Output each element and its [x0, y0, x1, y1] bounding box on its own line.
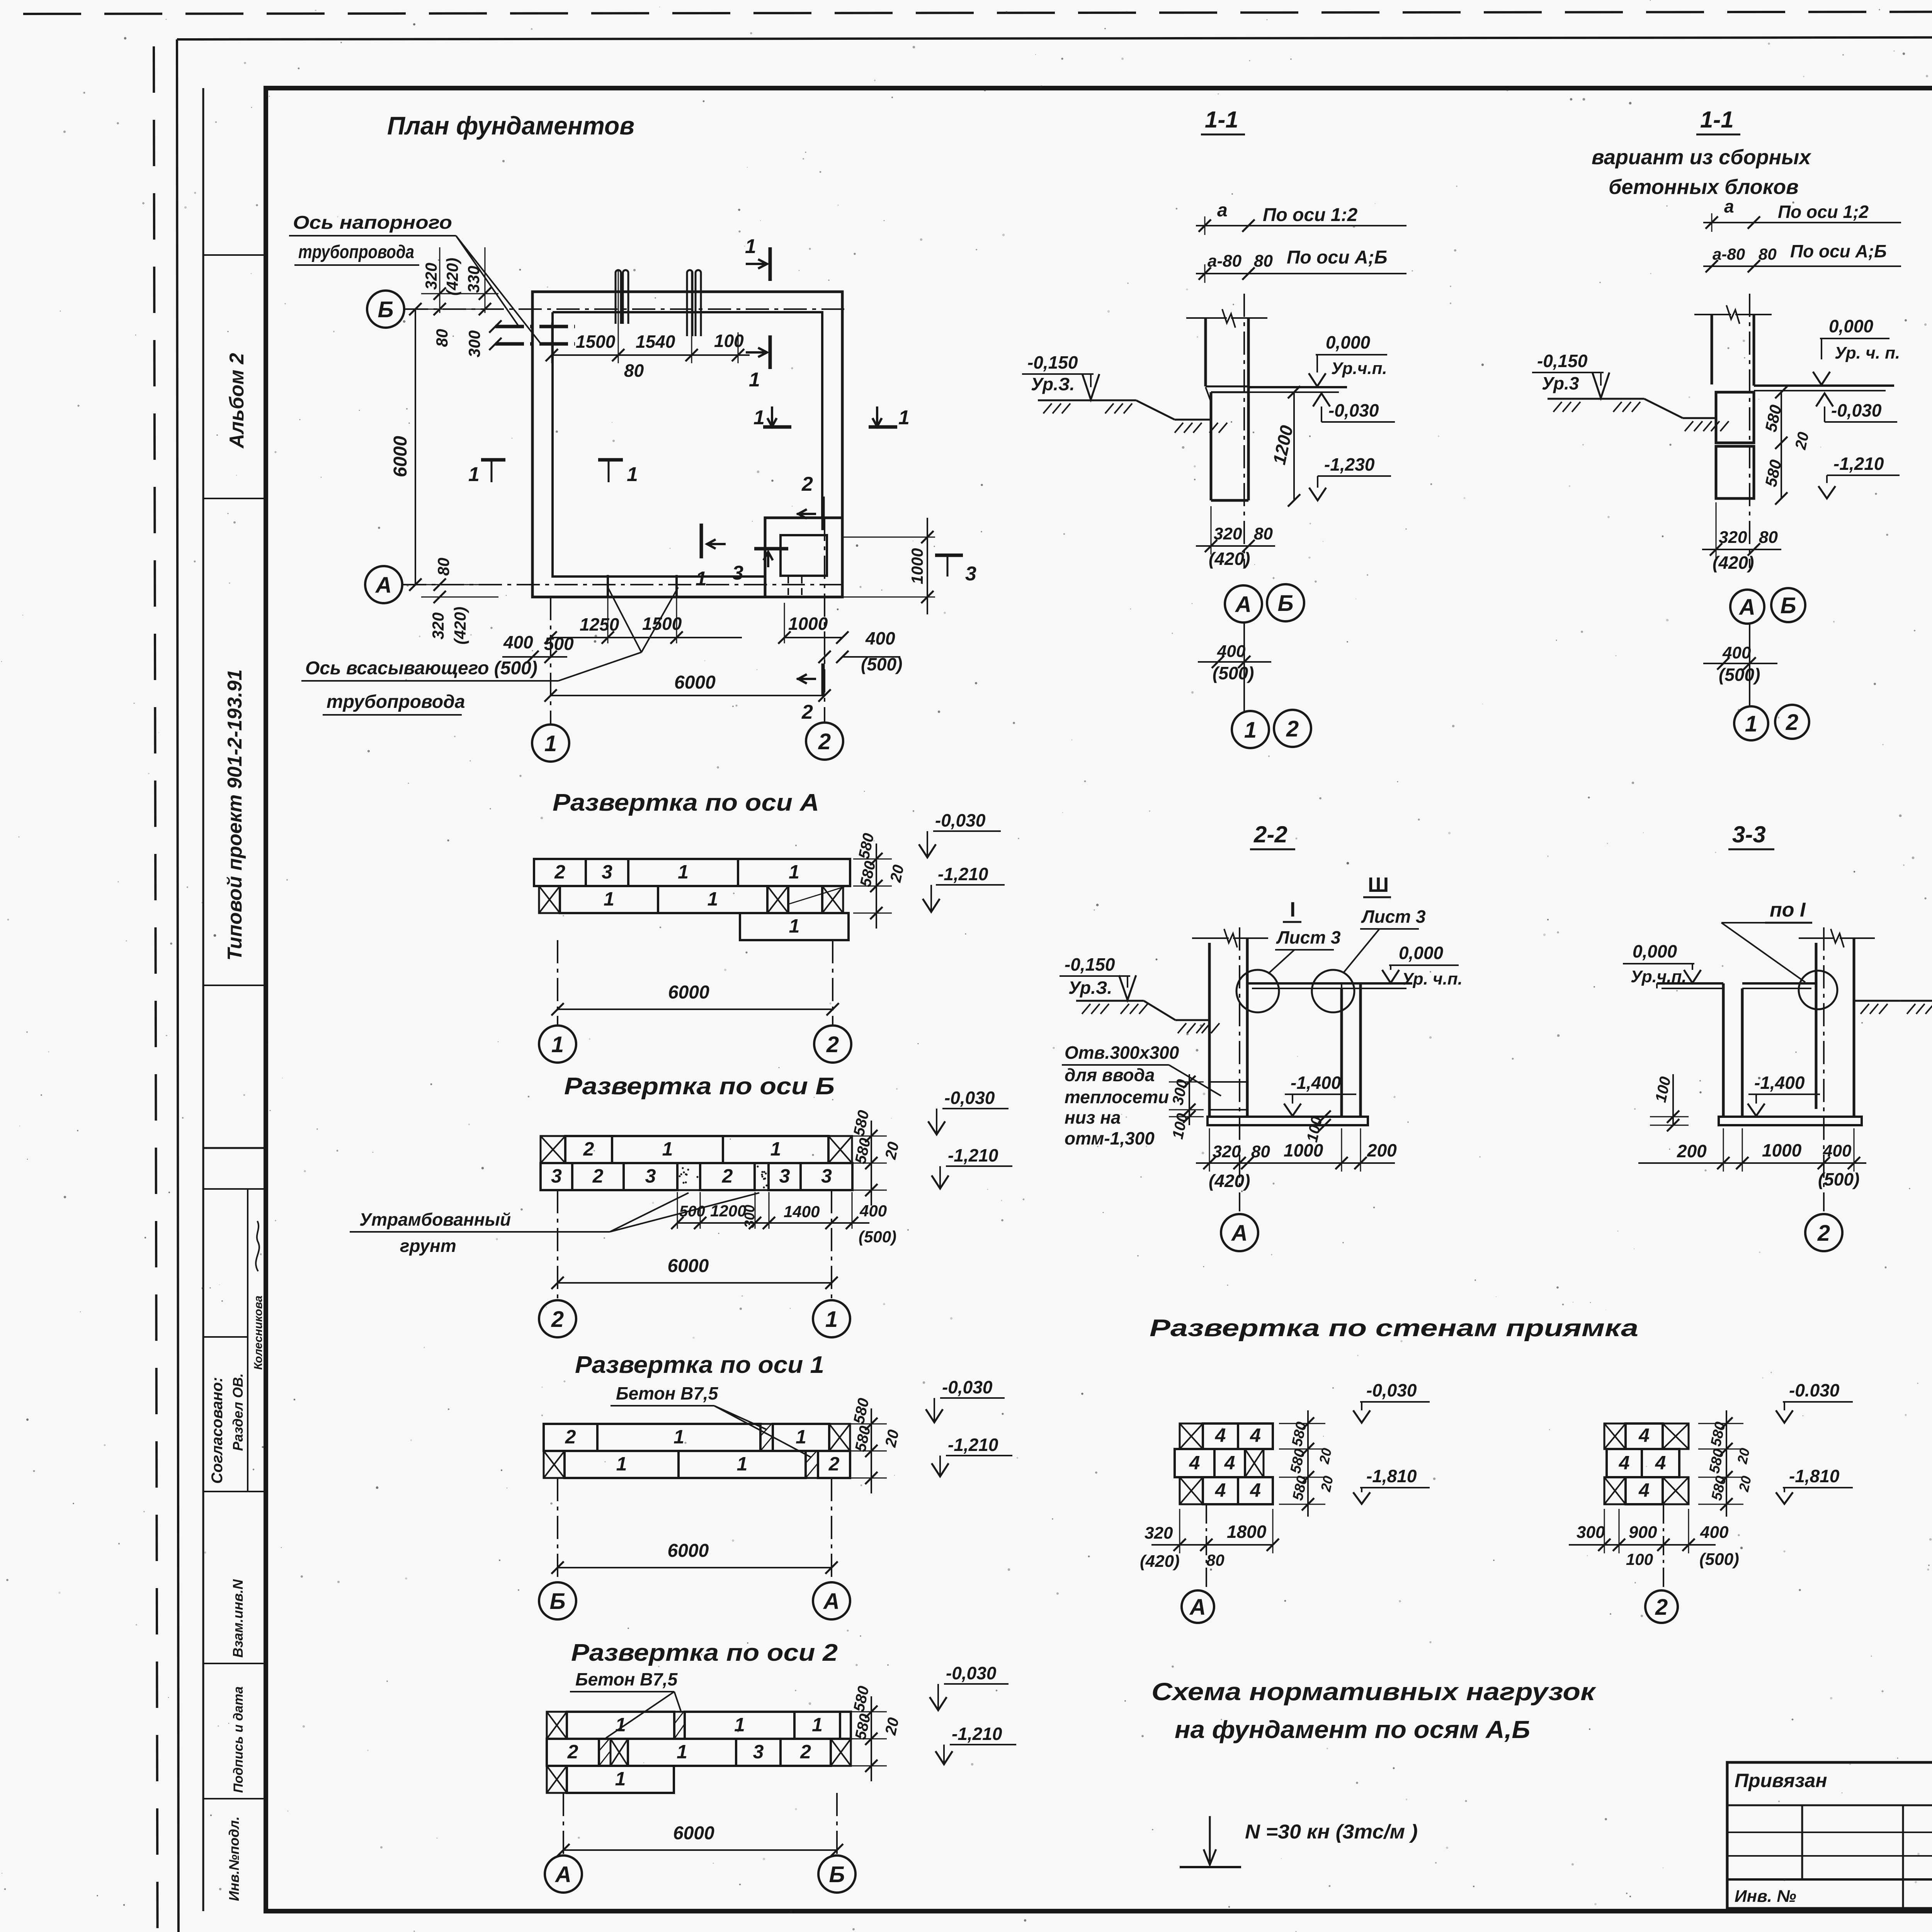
svg-text:(500): (500) — [1719, 665, 1760, 685]
svg-text:Б: Б — [549, 1589, 565, 1614]
1-1v block dims 580/20/580 — [1762, 386, 1812, 505]
svg-text:1000: 1000 — [1284, 1140, 1323, 1160]
1-1 dim 400 (500) — [1198, 622, 1271, 711]
blocks razvertka A row2 — [539, 886, 844, 913]
tamped soil label — [350, 1193, 759, 1256]
3-3 ground right — [1854, 1001, 1932, 1014]
svg-text:План фундаментов: План фундаментов — [387, 111, 634, 140]
load scheme title — [1151, 1678, 1597, 1743]
1-1v elev 0,000 — [1813, 316, 1900, 385]
svg-text:-0,150: -0,150 — [1537, 351, 1588, 371]
svg-text:(500): (500) — [859, 1228, 896, 1246]
svg-text:низ на: низ на — [1065, 1107, 1121, 1128]
svg-text:Инв. №: Инв. № — [1735, 1887, 1796, 1906]
1-1v elev -1,210 — [1818, 454, 1900, 498]
1-1v elev -0,150 — [1532, 351, 1609, 398]
svg-text:Взам.инв.N: Взам.инв.N — [230, 1579, 246, 1658]
2-2 detail circle I — [1236, 898, 1341, 1012]
svg-text:а-80: а-80 — [1207, 252, 1242, 270]
section mark 3 right outside — [935, 555, 976, 585]
3-3 axis — [1823, 927, 1825, 1211]
svg-text:4: 4 — [1215, 1479, 1226, 1501]
blocks razvertka A row3 — [740, 913, 849, 940]
svg-text:300: 300 — [742, 1205, 757, 1228]
svg-text:1: 1 — [737, 1453, 748, 1475]
2-2 hole 300x300 — [1209, 1082, 1247, 1110]
svg-text:Подпись и дата: Подпись и дата — [231, 1686, 246, 1793]
razvertka B bottom dims 500/1200/300/1400/400 — [671, 1192, 896, 1246]
svg-text:20: 20 — [1736, 1475, 1755, 1493]
svg-text:-1,210: -1,210 — [948, 1435, 998, 1455]
svg-text:1: 1 — [789, 915, 800, 937]
3-3 elev 0,000 left — [1623, 941, 1701, 986]
section mark 1 top right — [745, 235, 770, 281]
svg-text:400: 400 — [865, 628, 895, 648]
svg-text:20: 20 — [882, 1140, 902, 1161]
svg-text:1: 1 — [707, 888, 718, 910]
svg-text:По оси 1;2: По оси 1;2 — [1778, 202, 1869, 222]
section 1-1 variant title — [1592, 107, 1811, 199]
svg-text:(420): (420) — [443, 258, 461, 296]
axis A line — [403, 584, 844, 585]
blocks razvertka 1 row1 — [544, 1424, 850, 1451]
load arrow N=30 — [1180, 1816, 1418, 1867]
2-2 wall — [1192, 929, 1268, 1117]
svg-text:По оси А;Б: По оси А;Б — [1790, 241, 1887, 261]
svg-text:1: 1 — [551, 1032, 564, 1057]
razvertka B elevation -0,030 — [928, 1088, 1009, 1134]
svg-text:2: 2 — [567, 1741, 578, 1762]
priyamok A elev -1,810 — [1353, 1466, 1430, 1504]
svg-text:2: 2 — [592, 1165, 604, 1187]
wall pipe risers group 1 — [616, 270, 628, 324]
1-1 elev -0,030 — [1313, 393, 1395, 422]
svg-text:1200: 1200 — [710, 1202, 746, 1220]
svg-text:-0,150: -0,150 — [1027, 352, 1078, 372]
blocks razvertka B row2 — [541, 1163, 852, 1190]
svg-text:2: 2 — [801, 701, 813, 723]
section mark 2 bottom — [797, 663, 823, 723]
1-1v top dims — [1703, 196, 1901, 272]
svg-text:вариант из сборных: вариант из сборных — [1592, 146, 1811, 169]
svg-text:320: 320 — [1214, 524, 1242, 543]
svg-text:20: 20 — [1792, 430, 1812, 451]
razvertka 1 axes — [539, 1478, 850, 1619]
1-1v blocks — [1716, 392, 1754, 498]
svg-text:(420): (420) — [1713, 553, 1754, 573]
svg-text:(500): (500) — [1818, 1169, 1859, 1189]
2-2 floor line right — [1342, 983, 1412, 988]
section mark 2 right — [797, 473, 823, 530]
svg-text:80: 80 — [1251, 1142, 1270, 1161]
1-1 axis circles A B — [1225, 584, 1304, 622]
1-1 foundation below — [1206, 386, 1248, 500]
2-2 dim 100 right of slab — [1304, 1111, 1331, 1144]
svg-text:2: 2 — [1655, 1595, 1668, 1620]
svg-text:Б: Б — [1780, 593, 1796, 618]
svg-text:1000: 1000 — [908, 548, 926, 584]
svg-text:3: 3 — [551, 1165, 562, 1187]
svg-text:3: 3 — [779, 1165, 790, 1187]
1-1v elev -0,030 — [1816, 393, 1897, 422]
svg-text:Ур.З.: Ур.З. — [1068, 978, 1112, 998]
svg-text:А: А — [554, 1862, 571, 1887]
priyamok 2 blocks — [1604, 1423, 1689, 1504]
1-1v axis — [1749, 294, 1750, 568]
svg-text:Инв.№подл.: Инв.№подл. — [226, 1816, 242, 1901]
svg-text:400: 400 — [1722, 643, 1751, 662]
section mark 1 right (second) — [746, 335, 770, 391]
svg-text:500: 500 — [679, 1203, 705, 1220]
razvertka 2 axes — [545, 1793, 855, 1893]
priyamok A axis + circle — [1182, 1504, 1214, 1623]
svg-text:3-3: 3-3 — [1732, 821, 1766, 847]
svg-text:2: 2 — [1786, 710, 1798, 735]
1-1 dim 1200 — [1269, 386, 1300, 507]
3-3 detail po I — [1721, 899, 1837, 1009]
1-1 elev -1,230 — [1309, 454, 1391, 500]
svg-text:20: 20 — [1316, 1447, 1335, 1466]
svg-text:80: 80 — [1759, 245, 1777, 263]
svg-text:320: 320 — [429, 612, 447, 639]
svg-text:6000: 6000 — [673, 1823, 714, 1844]
left margin column — [203, 88, 266, 1911]
svg-text:1: 1 — [627, 463, 638, 486]
svg-text:Развертка по оси Б: Развертка по оси Б — [564, 1073, 835, 1100]
2-2 pit right wall — [1342, 983, 1361, 1117]
svg-text:1800: 1800 — [1227, 1522, 1267, 1542]
priyamok A right dims — [1279, 1410, 1336, 1517]
svg-text:1: 1 — [898, 406, 910, 429]
svg-text:400: 400 — [1700, 1523, 1729, 1542]
priyamok 2 right dims — [1698, 1410, 1754, 1517]
svg-text:А: А — [1738, 595, 1755, 620]
svg-text:трубопровода: трубопровода — [298, 242, 414, 262]
svg-text:Развертка по оси 1: Развертка по оси 1 — [575, 1352, 824, 1378]
razvertka 2 elevation -1,210 — [935, 1724, 1016, 1764]
svg-text:2: 2 — [826, 1032, 839, 1057]
2-2 detail circle III — [1312, 873, 1426, 1012]
svg-text:500: 500 — [544, 634, 574, 654]
2-2 circle A — [1221, 1214, 1258, 1251]
section 1-1 title — [1201, 107, 1245, 134]
svg-text:-0,030: -0,030 — [946, 1663, 997, 1683]
svg-text:3: 3 — [965, 563, 976, 585]
2-2 elev 0,000 — [1382, 943, 1463, 988]
svg-text:1: 1 — [770, 1138, 781, 1160]
1-1 axis line — [1243, 294, 1245, 568]
axis 2 line — [824, 518, 825, 723]
svg-text:трубопровода: трубопровода — [327, 692, 465, 712]
wall pipe risers group 2 — [687, 270, 701, 336]
svg-text:2: 2 — [722, 1165, 733, 1187]
svg-text:20: 20 — [1734, 1447, 1753, 1466]
svg-text:-1,210: -1,210 — [938, 864, 988, 884]
3-3 pit floor slab — [1719, 1117, 1862, 1125]
svg-text:1: 1 — [1745, 711, 1757, 736]
svg-text:1-1: 1-1 — [1700, 107, 1734, 133]
svg-text:(500): (500) — [1699, 1550, 1739, 1569]
svg-text:1: 1 — [745, 235, 756, 258]
1-1v dim 400 (500) — [1703, 624, 1777, 707]
razvertka A elevation -0,030 — [919, 810, 1001, 857]
svg-text:4: 4 — [1189, 1452, 1200, 1474]
svg-text:1500: 1500 — [576, 332, 616, 352]
axis circle 1 (plan) — [532, 724, 569, 762]
1-1v floor line — [1754, 386, 1894, 391]
svg-text:20: 20 — [1318, 1475, 1337, 1493]
2-2 elev -0,150 — [1060, 954, 1136, 1000]
1-1v circles 1 2 — [1734, 705, 1809, 740]
3-3 floor inside — [1742, 983, 1816, 988]
svg-text:4: 4 — [1638, 1479, 1650, 1501]
axis B line — [405, 308, 844, 310]
svg-text:80: 80 — [433, 329, 451, 347]
svg-text:-0,030: -0,030 — [942, 1377, 993, 1397]
2-2 ground left — [1076, 1001, 1219, 1033]
svg-text:400: 400 — [1217, 642, 1246, 661]
svg-text:-0.030: -0.030 — [1789, 1380, 1840, 1400]
svg-text:900: 900 — [1629, 1523, 1657, 1542]
svg-text:бетонных блоков: бетонных блоков — [1609, 175, 1799, 199]
2-2 elev -1,400 — [1284, 1073, 1356, 1116]
svg-text:Типовой проект 901-2-193.91: Типовой проект 901-2-193.91 — [224, 669, 246, 961]
svg-text:Б: Б — [1277, 591, 1293, 616]
svg-text:100: 100 — [1626, 1550, 1653, 1568]
svg-text:1-1: 1-1 — [1205, 107, 1238, 133]
plan walls — [532, 292, 842, 597]
svg-text:20: 20 — [887, 863, 907, 884]
svg-text:грунт: грунт — [400, 1236, 456, 1256]
svg-text:3: 3 — [602, 861, 612, 883]
svg-text:Ур. ч. п.: Ур. ч. п. — [1835, 344, 1900, 362]
svg-text:По оси А;Б: По оси А;Б — [1287, 247, 1387, 268]
razvertka A dims — [853, 832, 907, 929]
svg-text:320: 320 — [1213, 1142, 1241, 1161]
svg-text:80: 80 — [434, 558, 452, 576]
svg-text:1500: 1500 — [642, 614, 682, 634]
svg-text:-1,400: -1,400 — [1754, 1073, 1805, 1093]
razvertka A elevation -1,210 — [923, 864, 1005, 912]
section mark 3 — [732, 549, 788, 584]
svg-text:2: 2 — [554, 861, 565, 883]
razvertka B elevation -1,210 — [932, 1145, 1012, 1189]
svg-text:Ур. ч.п.: Ур. ч.п. — [1402, 969, 1463, 988]
svg-text:3: 3 — [753, 1741, 764, 1762]
svg-text:Согласовано:: Согласовано: — [209, 1377, 226, 1484]
svg-text:1540: 1540 — [636, 332, 675, 352]
svg-text:1250: 1250 — [580, 614, 619, 634]
svg-text:Ур.З.: Ур.З. — [1031, 374, 1075, 394]
plan 6000 vertical dim — [390, 303, 422, 591]
2-2 floor inside — [1247, 983, 1342, 988]
svg-text:100: 100 — [714, 331, 744, 351]
svg-text:теплосети: теплосети — [1065, 1087, 1169, 1107]
1-1v wall — [1694, 305, 1772, 386]
svg-text:400: 400 — [859, 1202, 887, 1220]
svg-text:-1,210: -1,210 — [948, 1145, 998, 1165]
svg-text:Ось напорного: Ось напорного — [293, 213, 452, 233]
svg-text:N =30 кн (3тс/м ): N =30 кн (3тс/м ) — [1245, 1821, 1418, 1843]
1-1 bottom dims 320/80 (420) — [1196, 506, 1275, 569]
plan right dim 400/(500) — [818, 628, 902, 674]
svg-text:Ур.ч.п.: Ур.ч.п. — [1631, 967, 1687, 986]
suction pipe label — [301, 587, 678, 715]
priyamok A elev -0,030 — [1353, 1380, 1430, 1423]
svg-text:А: А — [1235, 592, 1252, 617]
svg-text:4: 4 — [1250, 1425, 1261, 1446]
svg-text:I: I — [1290, 898, 1296, 921]
1-1v ground — [1548, 399, 1729, 431]
svg-text:Ось всасывающего (500): Ось всасывающего (500) — [305, 658, 537, 679]
svg-text:-0,030: -0,030 — [1831, 400, 1882, 420]
svg-text:(420): (420) — [1140, 1552, 1180, 1571]
3-3 floor line left — [1657, 983, 1723, 988]
razvertka 2 dims — [848, 1684, 902, 1781]
svg-text:6000: 6000 — [668, 982, 709, 1003]
1-1 top dim a / Po osi 1:2 — [1196, 200, 1406, 235]
svg-text:По оси 1:2: По оси 1:2 — [1263, 205, 1358, 225]
svg-text:6000: 6000 — [674, 672, 716, 693]
svg-text:400: 400 — [1823, 1141, 1852, 1160]
svg-text:200: 200 — [1677, 1141, 1707, 1161]
plan bottom-left dims — [421, 558, 574, 663]
svg-text:80: 80 — [1759, 528, 1778, 547]
priyamok 2 axis + circle — [1645, 1504, 1678, 1623]
svg-text:для ввода: для ввода — [1065, 1065, 1155, 1085]
svg-text:200: 200 — [1367, 1140, 1397, 1160]
priyamok 2 elev -1,810 — [1776, 1466, 1853, 1504]
svg-text:1000: 1000 — [788, 614, 828, 634]
svg-text:Развертка по оси А: Развертка по оси А — [553, 789, 819, 816]
svg-text:300: 300 — [1577, 1523, 1605, 1542]
plan top dim 1500/1540/100 — [546, 270, 750, 381]
svg-text:4: 4 — [1215, 1425, 1226, 1446]
svg-text:3: 3 — [821, 1165, 832, 1187]
svg-text:1: 1 — [812, 1714, 823, 1735]
svg-text:(500): (500) — [1213, 663, 1254, 683]
svg-text:4: 4 — [1619, 1452, 1630, 1474]
svg-text:80: 80 — [1254, 252, 1273, 270]
svg-text:-1,400: -1,400 — [1291, 1073, 1341, 1093]
svg-text:Ур.ч.п.: Ур.ч.п. — [1331, 359, 1387, 378]
svg-text:Колесникова: Колесникова — [252, 1296, 265, 1370]
svg-text:-0,030: -0,030 — [935, 810, 986, 830]
svg-text:320: 320 — [422, 263, 440, 290]
plan bottom 6000 dim — [544, 672, 831, 702]
svg-text:1: 1 — [749, 369, 760, 391]
1-1 elev -0,150 Ur.Z. — [1022, 352, 1099, 400]
vertical margin texts — [209, 353, 265, 1901]
svg-text:1: 1 — [734, 1714, 745, 1735]
svg-text:на фундамент по осям А,Б: на фундамент по осям А,Б — [1175, 1716, 1530, 1743]
svg-text:А: А — [375, 573, 392, 598]
razvertka 2 elevation -0,030 — [930, 1663, 1009, 1710]
svg-text:Б: Б — [829, 1862, 845, 1887]
axis circle B — [367, 291, 404, 328]
2-2 left dims 300/100 — [1169, 1074, 1204, 1141]
razvertka B axes — [539, 1190, 850, 1337]
svg-text:1: 1 — [825, 1307, 838, 1332]
3-3 bottom dims — [1638, 1128, 1866, 1189]
svg-text:320: 320 — [1719, 528, 1747, 547]
svg-text:2: 2 — [1817, 1221, 1830, 1246]
1-1 axis circles 1 2 — [1232, 710, 1311, 748]
svg-text:Ш: Ш — [1368, 873, 1389, 896]
axis circle 2 (plan) — [806, 723, 843, 760]
razvertka B dims — [848, 1109, 902, 1206]
svg-text:-1,230: -1,230 — [1324, 454, 1375, 474]
blocks razvertka B row1 — [541, 1136, 852, 1163]
svg-text:4: 4 — [1638, 1425, 1650, 1446]
svg-text:1: 1 — [544, 731, 557, 756]
svg-text:1: 1 — [677, 1741, 687, 1762]
svg-text:1: 1 — [1244, 718, 1257, 743]
1-1 second dim a-80/80 Po osi A;B — [1196, 247, 1406, 283]
svg-text:4: 4 — [1655, 1452, 1666, 1474]
section 3-3 title — [1728, 821, 1774, 849]
blocks razvertka 2 row1 — [547, 1712, 851, 1739]
svg-text:2: 2 — [1286, 716, 1299, 742]
svg-text:А: А — [823, 1589, 840, 1614]
pit (priyamok) in plan — [765, 518, 842, 597]
razvertka A axes — [539, 940, 851, 1063]
svg-text:1: 1 — [468, 463, 480, 486]
1-1 wall — [1186, 309, 1267, 387]
svg-text:Бетон В7,5: Бетон В7,5 — [575, 1669, 678, 1689]
svg-text:1: 1 — [662, 1138, 673, 1160]
plan bottom dim 1250/1500 — [544, 585, 742, 644]
2-2 bottom dims — [1196, 1128, 1397, 1191]
svg-text:2: 2 — [801, 473, 813, 495]
3-3 elev -1,400 — [1748, 1073, 1820, 1116]
section mark 1 near pit — [696, 524, 726, 590]
svg-text:1: 1 — [696, 568, 707, 590]
svg-text:1: 1 — [753, 406, 765, 429]
svg-text:0,000: 0,000 — [1829, 316, 1874, 336]
svg-text:А: А — [1189, 1595, 1206, 1620]
svg-text:-1,210: -1,210 — [952, 1724, 1002, 1744]
svg-text:-0,150: -0,150 — [1065, 954, 1115, 975]
svg-text:Б: Б — [378, 297, 393, 322]
svg-text:по I: по I — [1770, 899, 1806, 921]
svg-text:1: 1 — [604, 888, 614, 910]
2-2 otv text — [1062, 1043, 1221, 1148]
svg-text:20: 20 — [882, 1428, 902, 1449]
svg-text:а-80: а-80 — [1713, 245, 1745, 263]
svg-text:1: 1 — [616, 1453, 627, 1475]
1-1v circles A B — [1730, 588, 1805, 624]
svg-text:2-2: 2-2 — [1253, 821, 1287, 847]
svg-text:320: 320 — [1145, 1524, 1173, 1543]
svg-text:-0,030: -0,030 — [944, 1088, 995, 1108]
blocks razvertka A row1 — [534, 859, 850, 886]
razvertka 1 dims — [848, 1396, 902, 1493]
svg-text:Ур.3: Ур.3 — [1542, 373, 1579, 393]
svg-text:Схема нормативных нагрузок: Схема нормативных нагрузок — [1151, 1678, 1597, 1706]
svg-text:300: 300 — [465, 330, 483, 357]
svg-text:80: 80 — [624, 361, 644, 381]
svg-text:-1,810: -1,810 — [1366, 1466, 1417, 1486]
svg-text:1400: 1400 — [784, 1202, 820, 1221]
plan left dims 320/(420)/330 — [421, 247, 498, 357]
svg-text:Развертка по оси 2: Развертка по оси 2 — [571, 1639, 838, 1666]
3-3 wall — [1799, 929, 1875, 1117]
pressure pipe stubs at wall — [489, 320, 575, 350]
svg-text:0,000: 0,000 — [1399, 943, 1444, 963]
svg-text:Лист 3: Лист 3 — [1361, 906, 1426, 927]
svg-text:Альбом 2: Альбом 2 — [226, 353, 248, 449]
